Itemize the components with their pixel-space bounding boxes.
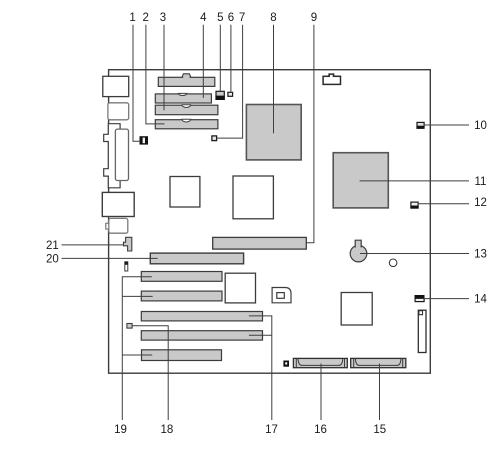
- memory slot 3: [155, 105, 218, 115]
- svg-text:8: 8: [270, 12, 276, 24]
- power connector tab merge: [330, 76, 333, 78]
- memory slot 2 notch: [178, 93, 187, 95]
- black jumper near 16: [283, 361, 289, 367]
- svg-text:16: 16: [314, 424, 327, 436]
- chip 11 (south bridge): [333, 153, 388, 208]
- io port box (parallel): [102, 192, 134, 216]
- svg-text:17: 17: [265, 424, 278, 436]
- leader line 21: [62, 244, 124, 246]
- io port box 2 (USB): [108, 103, 129, 120]
- leader line 13: [360, 253, 469, 255]
- ide connector 15: [351, 358, 406, 367]
- connector 5 black base: [215, 96, 225, 100]
- leader line 20: [62, 257, 158, 259]
- floppy connector key: [419, 311, 423, 315]
- slot 20 connector: [150, 253, 243, 264]
- connector 1 white slot: [143, 138, 145, 144]
- cpu socket large: [233, 176, 273, 219]
- svg-text:9: 9: [311, 12, 317, 24]
- leader line 15: [379, 364, 381, 421]
- ide connector 16: [293, 358, 347, 367]
- memory slot 1: [158, 77, 215, 86]
- svg-text:12: 12: [474, 197, 487, 209]
- memory slot 3 notch: [182, 105, 191, 108]
- memory slot 1 tab fill merge: [183, 76, 189, 78]
- svg-text:4: 4: [200, 12, 207, 24]
- battery tab: [355, 240, 361, 247]
- bios socket outer: [272, 288, 291, 303]
- mounting hole: [389, 259, 397, 267]
- chip right of P1 P2: [225, 273, 255, 303]
- leader line 8: [273, 25, 275, 134]
- memory slot 1 tab: [182, 74, 191, 78]
- ide connector 15 inner: [355, 359, 401, 366]
- svg-text:11: 11: [475, 176, 487, 188]
- io port stack back plate with tabs: [104, 124, 120, 188]
- slot P2: [141, 291, 222, 301]
- battery: [350, 245, 367, 262]
- leader line 9: [306, 25, 314, 243]
- leader line 3: [163, 25, 165, 111]
- leader line 2: [146, 25, 165, 124]
- ide connector 16 inner: [298, 359, 343, 366]
- power connector top right: [329, 74, 334, 78]
- floppy connector tall: [418, 310, 426, 352]
- connector 21: [124, 237, 132, 251]
- connector 14 black top: [415, 295, 425, 298]
- leader line 4: [202, 25, 204, 98]
- io port small notch: [106, 223, 110, 229]
- svg-text:6: 6: [228, 12, 234, 24]
- bios socket inner: [277, 293, 285, 299]
- svg-text:21: 21: [46, 240, 59, 252]
- slot P4 long: [141, 331, 262, 340]
- power connector body: [323, 76, 340, 84]
- board outline: [109, 70, 431, 374]
- memory slot 4: [155, 120, 218, 129]
- svg-text:20: 20: [46, 253, 59, 265]
- connector 14 body: [415, 298, 424, 301]
- leader line 17: [249, 316, 272, 420]
- svg-text:7: 7: [239, 12, 245, 24]
- svg-text:5: 5: [217, 12, 223, 24]
- connector 6: [228, 92, 233, 96]
- leader line 11: [360, 180, 469, 182]
- connector 10 black base: [416, 126, 424, 129]
- slot P3 long: [141, 312, 262, 321]
- leader line 12: [418, 203, 470, 205]
- leader line 5: [219, 25, 221, 92]
- svg-text:13: 13: [474, 248, 487, 260]
- svg-text:3: 3: [160, 12, 166, 24]
- slot P1: [141, 272, 222, 282]
- svg-text:1: 1: [129, 12, 135, 24]
- jumper cap: [125, 262, 128, 265]
- slot P5: [142, 350, 222, 361]
- ide connector 16 end walls: [296, 359, 344, 368]
- leader line 7: [217, 25, 243, 138]
- memory slot 4 notch: [182, 119, 191, 122]
- svg-text:19: 19: [114, 424, 127, 436]
- leader line 19: [122, 277, 152, 420]
- slot 9 connector: [213, 237, 307, 249]
- svg-text:15: 15: [373, 424, 386, 436]
- chip bottom right: [341, 293, 372, 326]
- black jumper white dot: [285, 362, 287, 364]
- cpu socket small: [170, 177, 200, 208]
- jumper below 21: [125, 262, 128, 271]
- svg-text:18: 18: [161, 424, 174, 436]
- ide connector 15 end walls: [354, 359, 403, 368]
- leader line 6: [230, 25, 232, 93]
- leader line 14: [424, 298, 470, 300]
- svg-text:2: 2: [142, 12, 148, 24]
- connector 5 body: [216, 91, 224, 96]
- leader line 1: [133, 25, 140, 142]
- svg-text:10: 10: [474, 120, 487, 132]
- connector 7: [212, 136, 217, 141]
- leader line 10: [424, 124, 470, 126]
- svg-text:14: 14: [474, 294, 487, 306]
- connector 12 body: [411, 202, 418, 206]
- io port stack front connector: [115, 129, 128, 180]
- connector 10 body: [417, 122, 424, 126]
- chip 8 (north bridge): [246, 105, 301, 160]
- connector 1 black body: [140, 136, 149, 144]
- leader line 18: [132, 326, 168, 420]
- connector 18 target: [127, 324, 132, 329]
- io port box top (LAN): [103, 76, 129, 96]
- leader line 16: [320, 364, 322, 421]
- memory slot 2: [155, 94, 211, 103]
- io port box bottom (audio): [109, 218, 128, 233]
- connector 12 black base: [410, 206, 418, 209]
